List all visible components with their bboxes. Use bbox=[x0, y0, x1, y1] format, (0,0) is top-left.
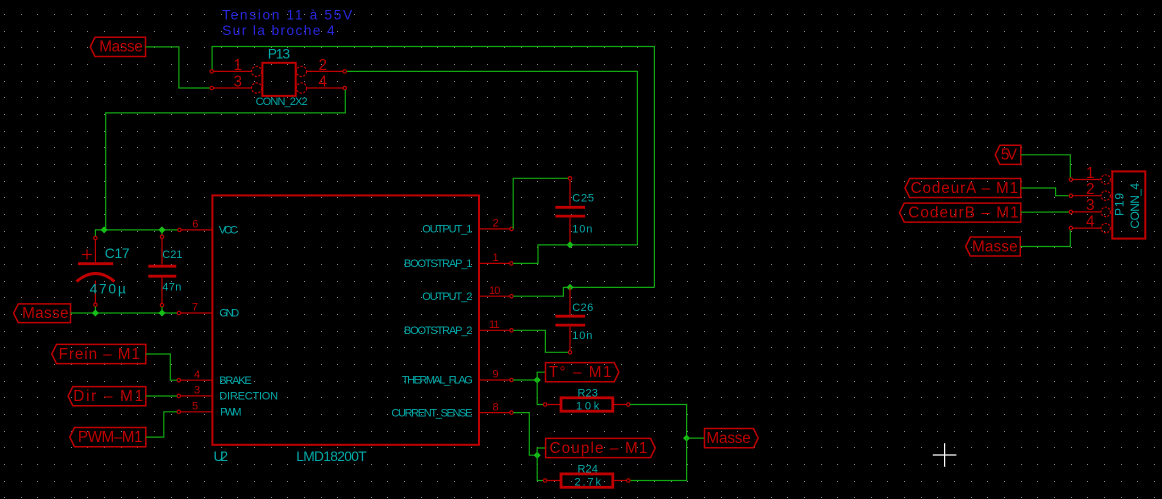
wire Frein to pin 4 bbox=[146, 354, 177, 380]
svg-text:R23: R23 bbox=[578, 387, 598, 399]
svg-text:Dir – M1: Dir – M1 bbox=[73, 388, 142, 405]
P19 pin 4 bbox=[1069, 213, 1101, 230]
wire junction down to R23 bbox=[537, 380, 543, 405]
resistor R23 bbox=[543, 398, 630, 411]
svg-text:C25: C25 bbox=[572, 193, 594, 205]
global label PWM-M1 bbox=[70, 428, 146, 447]
wire CURRENT_SENSE down to junction bbox=[513, 413, 537, 456]
svg-text:U2: U2 bbox=[214, 449, 228, 464]
svg-text:10n: 10n bbox=[572, 330, 592, 342]
junction current sense bbox=[534, 452, 541, 459]
svg-text:C21: C21 bbox=[162, 249, 182, 261]
wire R23 right to masse column bbox=[630, 405, 687, 439]
svg-text:P19: P19 bbox=[1113, 193, 1127, 216]
junction C25 bottom bbox=[566, 241, 573, 248]
svg-text:GND: GND bbox=[219, 308, 239, 320]
wire masse column down to R24 bbox=[630, 438, 687, 480]
svg-text:CURRENT_SENSE: CURRENT_SENSE bbox=[391, 407, 472, 419]
wire Masse to P13 pin 3 bbox=[146, 47, 211, 88]
wire junction down to R24 bbox=[537, 455, 543, 480]
wire junction to Couple label bbox=[537, 448, 545, 455]
svg-text:10n: 10n bbox=[572, 224, 592, 236]
svg-text:10: 10 bbox=[489, 285, 500, 297]
svg-text:9: 9 bbox=[493, 369, 499, 381]
connector P19 CONN_4 bbox=[1101, 171, 1145, 238]
global label CodeurB - M1 bbox=[900, 203, 1021, 222]
svg-text:47n: 47n bbox=[162, 282, 181, 294]
svg-text:BRAKE: BRAKE bbox=[219, 375, 251, 387]
U2 pin 7 GND bbox=[177, 302, 239, 320]
svg-text:6: 6 bbox=[192, 219, 198, 231]
svg-text:1: 1 bbox=[493, 252, 499, 264]
svg-text:3: 3 bbox=[1086, 197, 1094, 214]
U2 pin 9 THERMAL_FLAG bbox=[402, 369, 513, 387]
svg-text:C26: C26 bbox=[572, 302, 593, 314]
svg-text:R24: R24 bbox=[578, 463, 598, 475]
svg-text:CONN_2X2: CONN_2X2 bbox=[256, 96, 308, 108]
svg-text:4: 4 bbox=[319, 74, 328, 91]
svg-text:OUTPUT_1: OUTPUT_1 bbox=[422, 224, 472, 236]
svg-text:OUTPUT_2: OUTPUT_2 bbox=[422, 291, 472, 303]
wire jog to C21 top bbox=[161, 230, 163, 235]
IC U2 LMD18200T body bbox=[212, 195, 479, 444]
U2 pin 1 BOOTSTRAP_1 bbox=[404, 252, 513, 270]
svg-text:2: 2 bbox=[493, 218, 499, 230]
wire CodeurA to P19 pin 2 bbox=[1021, 188, 1069, 196]
junction VCC-C21 bbox=[158, 226, 165, 233]
svg-text:10k: 10k bbox=[576, 401, 600, 413]
wire P13 pin2 right and down to C25 bottom rail bbox=[346, 71, 637, 245]
svg-text:2.7k: 2.7k bbox=[575, 477, 602, 489]
global label Masse (bottom right) bbox=[705, 429, 759, 448]
wire jog C17 bottom bbox=[94, 307, 96, 314]
global label Couple - M1 bbox=[546, 438, 656, 457]
P13 pin 3 bbox=[210, 74, 251, 91]
svg-text:7: 7 bbox=[192, 302, 198, 314]
wire P13 pin1 up and right to far right column bbox=[212, 47, 654, 288]
U2 pin 2 OUTPUT_1 bbox=[422, 218, 513, 236]
wire 5V to P19 pin 1 bbox=[1021, 155, 1071, 178]
svg-text:4: 4 bbox=[1086, 213, 1095, 230]
svg-text:CodeurB – M1: CodeurB – M1 bbox=[908, 204, 1018, 221]
svg-text:PWM: PWM bbox=[220, 407, 241, 419]
wire junction to Masse label bbox=[687, 437, 705, 439]
svg-text:C17: C17 bbox=[105, 246, 129, 261]
svg-text:5: 5 bbox=[192, 401, 198, 413]
svg-text:LMD18200T: LMD18200T bbox=[296, 449, 367, 464]
svg-text:VCC: VCC bbox=[219, 224, 238, 236]
P19 pin 2 bbox=[1069, 181, 1101, 198]
junction GND-C21 bbox=[158, 309, 165, 316]
svg-text:5V: 5V bbox=[1001, 147, 1018, 164]
capacitor C25 bbox=[555, 177, 585, 245]
capacitor C17 bbox=[77, 236, 115, 306]
svg-text:Masse: Masse bbox=[99, 39, 142, 56]
P13 pin 1 bbox=[210, 57, 251, 74]
global label Masse (near P19) bbox=[966, 237, 1021, 256]
wire jog to C17 top bbox=[95, 230, 104, 236]
U2 pin 11 BOOTSTRAP_2 bbox=[404, 319, 513, 337]
wire VCC rail bbox=[104, 229, 178, 231]
global label Frein - M1 bbox=[52, 344, 146, 363]
U2 pin 4 BRAKE bbox=[177, 369, 251, 387]
text note blue bbox=[222, 7, 354, 38]
junction C26 top bbox=[566, 284, 573, 291]
wire P13 pin4 down left down to VCC rail bbox=[106, 90, 346, 229]
U2 pin 8 CURRENT_SENSE bbox=[391, 401, 513, 419]
wire CodeurB to P19 pin 3 bbox=[1021, 211, 1069, 213]
svg-text:CodeurA – M1: CodeurA – M1 bbox=[911, 180, 1018, 197]
junction masse column bbox=[683, 435, 690, 442]
wire BOOTSTRAP_1 to C25 rail bbox=[513, 245, 570, 264]
svg-text:1: 1 bbox=[1086, 165, 1094, 182]
wire Dir to pin 3 bbox=[146, 395, 177, 397]
wire THERMAL_FLAG to junction bbox=[513, 379, 537, 381]
svg-text:P13: P13 bbox=[268, 47, 291, 62]
svg-text:470µ: 470µ bbox=[90, 282, 126, 297]
U2 pin 5 PWM bbox=[177, 401, 241, 419]
global label 5V bbox=[995, 145, 1021, 164]
svg-text:3: 3 bbox=[234, 74, 242, 91]
svg-text:Masse: Masse bbox=[22, 305, 68, 322]
junction thermal bbox=[534, 376, 541, 383]
svg-text:CONN_4: CONN_4 bbox=[1128, 183, 1142, 229]
svg-text:2: 2 bbox=[319, 57, 327, 74]
svg-text:3: 3 bbox=[194, 385, 200, 397]
svg-text:1: 1 bbox=[234, 57, 242, 74]
global label Dir - M1 bbox=[68, 387, 146, 406]
U2 pin 10 OUTPUT_2 bbox=[422, 285, 513, 303]
wire PWM to pin 5 bbox=[146, 412, 177, 437]
wire BOOTSTRAP_2 to C26 bottom bbox=[513, 330, 568, 352]
svg-text:Masse: Masse bbox=[706, 430, 750, 447]
svg-text:Masse: Masse bbox=[972, 238, 1017, 255]
P19 pin 3 bbox=[1069, 197, 1101, 214]
wire OUTPUT_2 to right column rail bbox=[513, 287, 654, 296]
U2 pin 6 VCC bbox=[178, 219, 238, 237]
wire Masse to P19 pin 4 bbox=[1020, 230, 1070, 247]
global label Masse (mid left) bbox=[14, 304, 71, 323]
P19 pin 1 bbox=[1069, 165, 1101, 182]
cursor crosshair bbox=[933, 443, 957, 467]
global label T - M1 bbox=[546, 363, 619, 382]
wire OUTPUT_1 to C25 top bbox=[513, 178, 568, 229]
svg-text:Tension 11 à 55V: Tension 11 à 55V bbox=[222, 7, 354, 22]
junction VCC-C17 bbox=[101, 226, 108, 233]
global label CodeurA - M1 bbox=[905, 179, 1021, 198]
P13 pin 2 bbox=[307, 57, 347, 74]
junction GND-C17 bbox=[92, 309, 99, 316]
capacitor C26 bbox=[555, 287, 585, 354]
svg-text:4: 4 bbox=[194, 369, 200, 381]
svg-text:8: 8 bbox=[493, 401, 499, 413]
U2 pin 3 DIRECTION bbox=[177, 385, 278, 403]
svg-text:PWM–M1: PWM–M1 bbox=[78, 429, 142, 446]
svg-text:Couple – M1: Couple – M1 bbox=[550, 440, 648, 457]
svg-text:BOOTSTRAP_1: BOOTSTRAP_1 bbox=[404, 258, 472, 270]
svg-text:Sur la broche 4: Sur la broche 4 bbox=[222, 23, 336, 38]
wire GND rail bbox=[71, 312, 178, 314]
capacitor C21 bbox=[148, 235, 176, 307]
svg-text:11: 11 bbox=[489, 319, 499, 331]
svg-text:BOOTSTRAP_2: BOOTSTRAP_2 bbox=[404, 325, 472, 337]
wire jog C21 bottom bbox=[161, 307, 163, 313]
connector P13 CONN_2X2 bbox=[252, 63, 307, 96]
svg-text:2: 2 bbox=[1086, 181, 1094, 198]
wire junction to T label bbox=[537, 372, 545, 380]
resistor R24 bbox=[543, 474, 630, 487]
svg-text:Frein – M1: Frein – M1 bbox=[59, 346, 140, 363]
svg-text:DIRECTION: DIRECTION bbox=[219, 391, 278, 403]
global label Masse (top left) bbox=[90, 37, 145, 56]
svg-text:THERMAL_FLAG: THERMAL_FLAG bbox=[402, 375, 472, 387]
P13 pin 4 bbox=[307, 74, 347, 91]
